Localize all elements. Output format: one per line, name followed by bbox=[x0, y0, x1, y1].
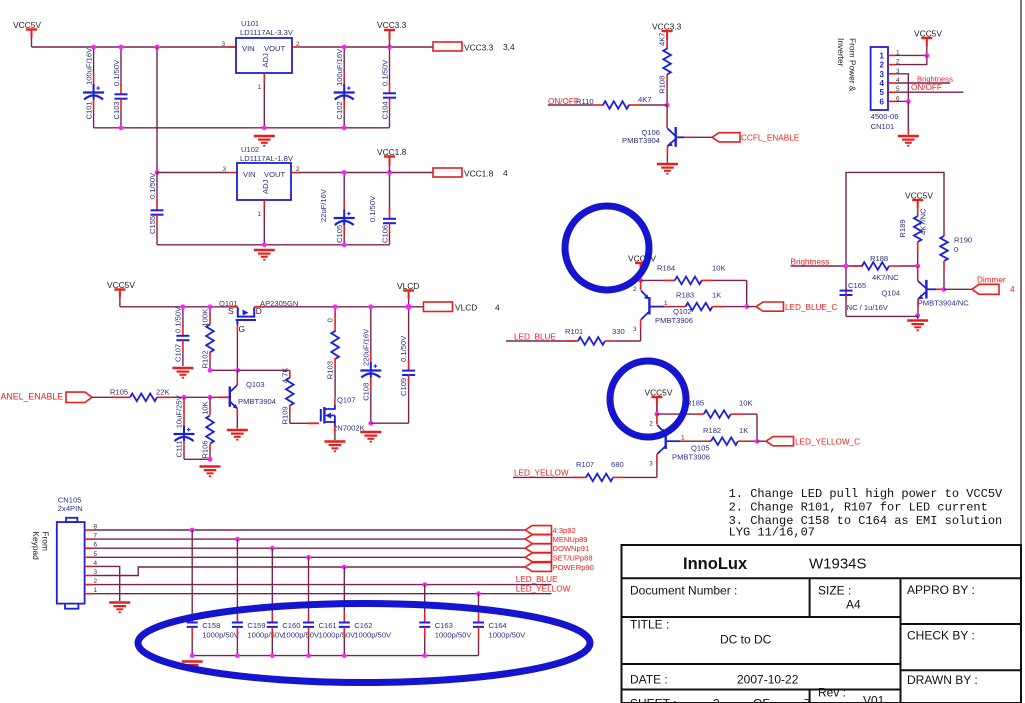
svg-text:C160: C160 bbox=[282, 621, 300, 630]
svg-text:APPRO BY :: APPRO BY : bbox=[907, 583, 975, 597]
wire R182 to junction bbox=[748, 440, 757, 442]
wire R101 to Q102 collector bbox=[616, 340, 641, 342]
svg-text:PMBT3904: PMBT3904 bbox=[238, 397, 276, 406]
svg-text:Document Number :: Document Number : bbox=[630, 584, 737, 598]
wire U101 ADJ to ground bus bbox=[263, 82, 265, 128]
transistor Q104 PMBT3904/NC bbox=[917, 266, 919, 281]
pin 2 stub CN105 bbox=[85, 584, 93, 586]
regulator U102 LD1117AL-1.8V bbox=[237, 163, 291, 200]
junction C103 top bbox=[119, 45, 124, 50]
svg-text:4: 4 bbox=[495, 303, 500, 313]
svg-text:DATE :: DATE : bbox=[630, 673, 668, 687]
wire VCC5V bus to U101 VIN bbox=[32, 46, 237, 48]
svg-text:LED_YELLOW: LED_YELLOW bbox=[514, 469, 569, 478]
svg-text:C162: C162 bbox=[354, 621, 372, 630]
svg-text:680: 680 bbox=[611, 460, 624, 469]
svg-text:POWERp90: POWERp90 bbox=[553, 563, 594, 572]
capacitor C106 bbox=[389, 173, 391, 211]
svg-text:C158: C158 bbox=[202, 621, 220, 630]
svg-text:U102: U102 bbox=[241, 145, 259, 154]
wire to LED_BLUE_C port bbox=[747, 306, 756, 308]
svg-text:10K: 10K bbox=[201, 401, 210, 415]
Q106 base stub bbox=[684, 136, 694, 138]
wire Q106 base to port bbox=[694, 136, 712, 138]
svg-text:Brightness: Brightness bbox=[791, 258, 830, 267]
svg-text:Q107: Q107 bbox=[337, 396, 356, 405]
svg-text:4: 4 bbox=[1010, 285, 1015, 294]
junction R102 bottom bbox=[208, 368, 213, 373]
svg-text:2x4PIN: 2x4PIN bbox=[58, 504, 83, 513]
junction C163 bottom bbox=[422, 653, 427, 658]
svg-text:Q103: Q103 bbox=[246, 380, 265, 389]
svg-text:3: 3 bbox=[222, 166, 226, 173]
pin 4 stub CN105 bbox=[85, 565, 93, 567]
capacitor C101 bbox=[93, 47, 95, 76]
svg-text:CN101: CN101 bbox=[871, 122, 895, 131]
junction VCC5V branch to U102 bbox=[155, 45, 160, 50]
wire CN101 pin1 bbox=[895, 54, 927, 56]
junction R108 / R110 / Q106 bbox=[665, 103, 670, 108]
svg-text:7: 7 bbox=[804, 697, 811, 703]
port LED_YELLOW_C bbox=[766, 437, 794, 446]
transistor Q103 PMBT3904 bbox=[218, 396, 229, 398]
junction R182 / R185 / LED_YELLOW_C bbox=[755, 439, 760, 444]
capacitor C155 bbox=[156, 173, 158, 203]
pin 1 stub U101 ADJ bbox=[263, 73, 265, 82]
junction U101 ADJ ground bbox=[262, 125, 267, 130]
resistor R190 0 bbox=[943, 231, 945, 236]
junction C106 / VCC1.8 flag bbox=[387, 170, 392, 175]
svg-text:LYG 11/16,07: LYG 11/16,07 bbox=[729, 526, 815, 540]
svg-text:1000p/50V: 1000p/50V bbox=[489, 631, 527, 640]
svg-text:10uF/25V: 10uF/25V bbox=[175, 394, 184, 428]
ground CN105 pin4 bbox=[109, 603, 130, 613]
transistor Q101 AP2305GN P-MOSFET bbox=[229, 306, 238, 308]
svg-text:R182: R182 bbox=[703, 426, 721, 435]
wire VCC5V down to U102 VIN bbox=[156, 47, 158, 173]
svg-text:1: 1 bbox=[257, 84, 261, 91]
wire pin1 row (LED_YELLOW) bbox=[93, 593, 552, 595]
ground U102 bbox=[254, 250, 275, 260]
wire pin4 to ground bbox=[93, 566, 120, 601]
wire VLCD rail bbox=[264, 306, 424, 308]
junction C105 bottom bbox=[342, 242, 347, 247]
wire C108-C109 ground link bbox=[371, 422, 409, 424]
wire U101 VOUT to VCC3.3 port bbox=[300, 46, 433, 48]
svg-text:OF: OF bbox=[753, 697, 770, 703]
svg-text:C101: C101 bbox=[85, 101, 94, 119]
svg-text:PMBT3904/NC: PMBT3904/NC bbox=[918, 299, 970, 308]
capacitor C162 1000p/50V bbox=[342, 565, 347, 570]
svg-text:LD1117AL-3.3V: LD1117AL-3.3V bbox=[240, 28, 294, 37]
pin G stub Q101 bbox=[236, 325, 238, 333]
svg-text:1: 1 bbox=[681, 435, 685, 442]
wire VCC5V drop bbox=[119, 297, 121, 307]
wire pin3 row jog (POWERp90) bbox=[93, 567, 526, 576]
svg-text:DOWNp91: DOWNp91 bbox=[553, 544, 590, 553]
svg-text:C105: C105 bbox=[335, 225, 344, 243]
ground CN101 bbox=[898, 136, 919, 146]
svg-text:4K7/NC: 4K7/NC bbox=[919, 208, 928, 235]
svg-text:0: 0 bbox=[326, 318, 335, 322]
svg-text:100K: 100K bbox=[201, 309, 210, 327]
junction C159 bottom bbox=[235, 653, 240, 658]
junction Q102 emitter / R184 bbox=[638, 278, 643, 283]
svg-text:R105: R105 bbox=[110, 388, 128, 397]
wire R109 to Q107 gate bbox=[290, 422, 307, 424]
junction R183 / R184 / LED_BLUE_C bbox=[744, 304, 749, 309]
wire U102 ADJ to ground bus bbox=[263, 209, 265, 245]
svg-text:R188: R188 bbox=[870, 254, 888, 263]
capacitor C159 1000p/50V bbox=[235, 537, 240, 542]
capacitor C108 bbox=[370, 307, 372, 353]
ground Q103 bbox=[227, 430, 248, 440]
svg-text:C103: C103 bbox=[112, 101, 121, 119]
pin 6 stub CN105 bbox=[85, 547, 93, 549]
svg-text:C164: C164 bbox=[489, 621, 507, 630]
svg-text:R109: R109 bbox=[280, 406, 289, 424]
svg-text:LED_YELLOW_C: LED_YELLOW_C bbox=[795, 438, 860, 447]
svg-text:2: 2 bbox=[880, 61, 885, 70]
svg-text:3: 3 bbox=[880, 70, 885, 79]
junction C111 top bbox=[182, 395, 187, 400]
svg-text:0.1/50V: 0.1/50V bbox=[148, 172, 157, 199]
wire R184 corner down bbox=[746, 280, 748, 306]
svg-text:1000p/50V: 1000p/50V bbox=[354, 631, 392, 640]
title block frame bbox=[622, 545, 1022, 703]
transistor Q106 PMBT3904 bbox=[666, 105, 668, 118]
regulator U101 LD1117AL-3.3V bbox=[236, 38, 292, 73]
junction C102 bottom bbox=[342, 125, 347, 130]
svg-text:2. Change R101, R107 for LED c: 2. Change R101, R107 for LED current bbox=[729, 501, 988, 515]
pin 7 stub CN105 bbox=[85, 538, 93, 540]
port VCC3.3 bbox=[433, 42, 462, 51]
svg-text:1000p/50V: 1000p/50V bbox=[435, 631, 473, 640]
wire to U102 VIN bbox=[157, 172, 229, 174]
junction C108 bottom ground bbox=[368, 421, 373, 426]
svg-text:4K7: 4K7 bbox=[638, 95, 652, 104]
junction R103 top bbox=[333, 304, 338, 309]
svg-text:100uF/16V: 100uF/16V bbox=[335, 48, 344, 86]
wire R107 to Q105 collector bbox=[624, 476, 657, 478]
port LED_BLUE_C bbox=[756, 302, 784, 311]
svg-text:0.1/50V: 0.1/50V bbox=[399, 335, 408, 362]
svg-text:Dimmer: Dimmer bbox=[977, 276, 1006, 285]
svg-text:C107: C107 bbox=[174, 344, 183, 362]
svg-text:4: 4 bbox=[880, 79, 885, 88]
port MENUp89 bbox=[525, 535, 551, 544]
svg-text:C155: C155 bbox=[148, 216, 157, 234]
pin 5 stub CN105 bbox=[85, 556, 93, 558]
resistor R110 4K7 bbox=[548, 104, 593, 106]
svg-text:3: 3 bbox=[221, 41, 225, 48]
capacitor C160 1000p/50V bbox=[270, 546, 275, 551]
junction C161 bottom bbox=[306, 653, 311, 658]
capacitor C105 bbox=[343, 173, 345, 201]
svg-text:10K: 10K bbox=[712, 264, 726, 273]
svg-text:1: 1 bbox=[880, 51, 885, 60]
svg-text:PMBT3904: PMBT3904 bbox=[622, 136, 660, 145]
svg-text:R184: R184 bbox=[657, 264, 675, 273]
ground C107 bbox=[172, 368, 193, 378]
svg-text:VOUT: VOUT bbox=[264, 170, 285, 179]
wire U102 VOUT to VCC1.8 port bbox=[299, 172, 433, 174]
wire R185 to corner bbox=[743, 413, 757, 415]
capacitor C107 bbox=[182, 307, 184, 327]
pin 3 stub CN105 bbox=[85, 575, 93, 577]
capacitor C158 1000p/50V bbox=[190, 528, 195, 533]
svg-text:1000p/50V: 1000p/50V bbox=[247, 631, 285, 640]
junction VLCD node bbox=[406, 304, 412, 310]
svg-text:C104: C104 bbox=[381, 101, 390, 119]
resistor R102 bbox=[209, 307, 211, 315]
port 4:3p92 bbox=[525, 526, 551, 535]
svg-text:Rev :: Rev : bbox=[818, 686, 846, 700]
wire CN101 pin4 Brightness bbox=[895, 82, 950, 84]
svg-text:1000p/50V: 1000p/50V bbox=[202, 631, 240, 640]
svg-text:Q105: Q105 bbox=[691, 444, 710, 453]
wire pin8 row (4:3p92) bbox=[93, 529, 526, 531]
svg-text:6: 6 bbox=[880, 97, 885, 106]
wire C111-R106 ground link bbox=[184, 458, 210, 460]
wire pin2 row (LED_BLUE) bbox=[93, 584, 552, 586]
junction R106 top bbox=[208, 395, 213, 400]
port Dimmer bbox=[972, 284, 999, 294]
svg-text:U101: U101 bbox=[241, 19, 259, 28]
wire VCC5V rail to Q101 source bbox=[120, 306, 229, 308]
svg-text:DC to DC: DC to DC bbox=[720, 633, 772, 647]
junction C108 top bbox=[368, 304, 373, 309]
wire to LED_YELLOW_C port bbox=[757, 440, 766, 442]
junction C102 top bbox=[342, 45, 347, 50]
svg-text:3: 3 bbox=[633, 326, 637, 333]
resistor R101 330 bbox=[506, 340, 576, 342]
svg-text:R189: R189 bbox=[898, 219, 907, 237]
ground bus stage 2 bbox=[157, 244, 390, 246]
junction Brightness / C165 branch bbox=[844, 264, 849, 269]
wire R105 to Q103 base bbox=[172, 396, 229, 398]
svg-text:LED_BLUE: LED_BLUE bbox=[514, 333, 556, 342]
svg-text:CHECK BY :: CHECK BY : bbox=[907, 629, 975, 643]
wire pin6 row (DOWNp91) bbox=[93, 547, 526, 549]
pin 2 stub U102 VOUT bbox=[291, 172, 299, 174]
svg-text:ANEL_ENABLE: ANEL_ENABLE bbox=[1, 392, 64, 402]
ground U101 bbox=[254, 136, 275, 146]
svg-text:4K7: 4K7 bbox=[658, 32, 667, 46]
svg-text:Q102: Q102 bbox=[673, 307, 692, 316]
junction C107 top bbox=[181, 304, 186, 309]
Q104 emitter stub bbox=[917, 299, 919, 307]
pin 3 stub U101 VIN bbox=[228, 46, 236, 48]
Q107 source stub bbox=[334, 426, 336, 433]
svg-text:C102: C102 bbox=[335, 101, 344, 119]
svg-text:100uF/16V: 100uF/16V bbox=[85, 47, 94, 85]
svg-text:ON/OFF: ON/OFF bbox=[911, 83, 942, 92]
svg-text:0.1/50V: 0.1/50V bbox=[381, 59, 390, 86]
svg-text:2007-10-22: 2007-10-22 bbox=[737, 673, 799, 687]
svg-text:LED_BLUE_C: LED_BLUE_C bbox=[785, 303, 837, 312]
svg-text:VIN: VIN bbox=[243, 170, 256, 179]
svg-text:1K: 1K bbox=[712, 290, 721, 299]
svg-text:D: D bbox=[256, 306, 262, 316]
svg-text:22K: 22K bbox=[156, 388, 170, 397]
svg-text:C111: C111 bbox=[175, 440, 184, 457]
junction U102 ADJ ground bbox=[262, 242, 267, 247]
svg-text:2: 2 bbox=[649, 421, 653, 428]
svg-text:VLCD: VLCD bbox=[455, 303, 477, 313]
Q107 gate stub bbox=[307, 422, 319, 424]
ground bus stage 1 bbox=[94, 127, 390, 129]
svg-text:VCC3.3: VCC3.3 bbox=[377, 20, 407, 30]
junction C105 top bbox=[342, 170, 347, 175]
svg-text:220uF/16V: 220uF/16V bbox=[361, 328, 370, 366]
svg-text:330: 330 bbox=[612, 327, 625, 336]
capacitor C103 bbox=[120, 47, 122, 86]
pin D stub Q101 bbox=[254, 306, 264, 308]
port DOWNp91 bbox=[525, 544, 551, 553]
Q102 collector stub bbox=[640, 320, 642, 329]
svg-text:4:3p92: 4:3p92 bbox=[553, 526, 576, 535]
wire NC loop bottom bbox=[846, 315, 918, 317]
svg-text:LED_YELLOW: LED_YELLOW bbox=[516, 585, 571, 594]
wire R185 corner down bbox=[756, 414, 758, 441]
svg-text:3: 3 bbox=[713, 697, 720, 703]
junction Q105 emitter / R185 bbox=[655, 412, 660, 417]
pin 8 stub CN105 bbox=[85, 529, 93, 531]
wire CN101 pin2 bbox=[895, 55, 927, 64]
junction R106 bottom ground bbox=[208, 457, 213, 462]
wire R110 to junction bbox=[640, 104, 667, 106]
junction C162 bottom bbox=[342, 653, 347, 658]
port VCC1.8 bbox=[433, 168, 462, 177]
junction U102 input / C155 bbox=[155, 170, 160, 175]
svg-text:C161: C161 bbox=[319, 621, 337, 630]
pin 2 stub U101 VOUT bbox=[292, 46, 300, 48]
junction R188 / R189 / Q104 base drop bbox=[915, 264, 920, 269]
svg-text:R108: R108 bbox=[658, 76, 667, 94]
Q106 emitter stub bbox=[666, 146, 668, 156]
wire CN101 pin6 bbox=[895, 100, 908, 102]
resistor R108 4K7 bbox=[666, 44, 668, 50]
svg-text:4: 4 bbox=[503, 168, 508, 178]
capacitor C109 bbox=[408, 307, 410, 369]
svg-text:MENUp89: MENUp89 bbox=[553, 535, 588, 544]
wire Q101 gate down bbox=[236, 333, 238, 371]
svg-text:W1934S: W1934S bbox=[809, 556, 867, 573]
svg-text:R101: R101 bbox=[565, 327, 583, 336]
pin 1 stub U102 ADJ bbox=[263, 200, 265, 209]
svg-text:1: 1 bbox=[257, 211, 261, 218]
svg-text:R106: R106 bbox=[201, 440, 210, 458]
wire R184 to corner bbox=[713, 279, 747, 281]
svg-text:ADJ: ADJ bbox=[261, 179, 270, 194]
svg-text:3: 3 bbox=[649, 461, 653, 468]
junction C103 bottom bbox=[119, 125, 124, 130]
svg-text:3,4: 3,4 bbox=[503, 42, 515, 52]
junction Q104 base / R190 / Dimmer bbox=[941, 287, 946, 292]
svg-text:S: S bbox=[228, 306, 234, 316]
junction C101 top bbox=[91, 45, 96, 50]
svg-text:G: G bbox=[239, 324, 246, 334]
capacitor C163 1000p/50V bbox=[422, 582, 427, 587]
svg-text:0.1/50V: 0.1/50V bbox=[112, 59, 121, 86]
svg-text:4.7K: 4.7K bbox=[280, 368, 289, 384]
wire CN101 ground drop bbox=[907, 101, 909, 128]
svg-text:VIN: VIN bbox=[242, 44, 255, 53]
ground EMI bus bbox=[182, 662, 203, 672]
resistor R188 4K7/NC bbox=[852, 265, 863, 267]
junction C158 bottom bbox=[190, 653, 195, 658]
svg-text:1. Change LED pull high power: 1. Change LED pull high power to VCC5V bbox=[729, 487, 1003, 501]
junction C160 bottom bbox=[270, 653, 275, 658]
resistor R105 bbox=[112, 396, 130, 398]
wire gate node to R109 bbox=[238, 369, 290, 371]
capacitor C104 bbox=[389, 47, 391, 85]
svg-text:C165: C165 bbox=[848, 281, 866, 290]
svg-text:10K: 10K bbox=[739, 398, 753, 407]
capacitor C111 bbox=[183, 397, 185, 400]
pin 3 stub U102 VIN bbox=[229, 172, 237, 174]
svg-text:LED_BLUE: LED_BLUE bbox=[516, 575, 558, 584]
svg-text:DRAWN BY :: DRAWN BY : bbox=[907, 673, 978, 687]
svg-text:SIZE :: SIZE : bbox=[818, 584, 851, 598]
svg-text:4K7/NC: 4K7/NC bbox=[872, 273, 899, 282]
port VLCD bbox=[424, 302, 453, 312]
transistor Q102 PMBT3906 bbox=[640, 280, 642, 290]
svg-text:C108: C108 bbox=[361, 383, 370, 401]
capacitor C102 bbox=[343, 47, 345, 76]
junction CN101 pin1 VCC5V bbox=[924, 53, 929, 58]
svg-text:ADJ: ADJ bbox=[261, 53, 270, 68]
wire Brightness row bbox=[791, 265, 863, 267]
resistor R185 10K bbox=[657, 413, 680, 415]
resistor R106 bbox=[209, 397, 211, 406]
resistor R103 0 ohm bbox=[334, 307, 336, 315]
svg-text:VCC1.8: VCC1.8 bbox=[464, 169, 494, 179]
Q103 emitter stub bbox=[236, 409, 238, 417]
svg-text:TITLE :: TITLE : bbox=[630, 618, 669, 632]
svg-text:PMBT3906: PMBT3906 bbox=[672, 453, 710, 462]
svg-text:22uF/16V: 22uF/16V bbox=[319, 188, 328, 222]
ground Q107 bbox=[324, 442, 345, 452]
Q105 collector stub bbox=[656, 454, 658, 462]
capacitor C164 1000p/50V bbox=[476, 591, 481, 596]
wire VCC5V vertical drop bbox=[31, 38, 33, 47]
svg-text:R107: R107 bbox=[576, 460, 594, 469]
pin 1 stub CN105 bbox=[85, 593, 93, 595]
svg-text:R103: R103 bbox=[326, 361, 335, 379]
svg-text:Keypad: Keypad bbox=[31, 531, 41, 560]
resistor R189 4K7/NC bbox=[917, 208, 919, 216]
svg-text:C109: C109 bbox=[399, 378, 408, 396]
transistor Q107 2N7002K N-MOSFET bbox=[321, 405, 335, 426]
svg-text:2: 2 bbox=[296, 41, 300, 48]
svg-text:VCC3.3: VCC3.3 bbox=[464, 43, 494, 53]
svg-text:Q104: Q104 bbox=[882, 289, 901, 298]
blue markup ellipse (EMI caps) bbox=[138, 604, 590, 683]
capacitor C161 1000p/50V bbox=[306, 555, 311, 560]
svg-text:R183: R183 bbox=[676, 290, 694, 299]
svg-text:C106: C106 bbox=[381, 225, 390, 243]
junction CN101 pin3/pin6 bbox=[906, 99, 911, 104]
junction Q104 emitter ground bbox=[915, 313, 920, 318]
wire pin7 row (MENUp89) bbox=[93, 538, 526, 540]
svg-text:1: 1 bbox=[664, 300, 668, 307]
svg-text:SET/UPp88: SET/UPp88 bbox=[553, 553, 593, 562]
ground C108 bbox=[360, 432, 381, 442]
svg-text:2N7002K: 2N7002K bbox=[333, 424, 365, 433]
transistor Q105 PMBT3906 bbox=[656, 414, 658, 424]
